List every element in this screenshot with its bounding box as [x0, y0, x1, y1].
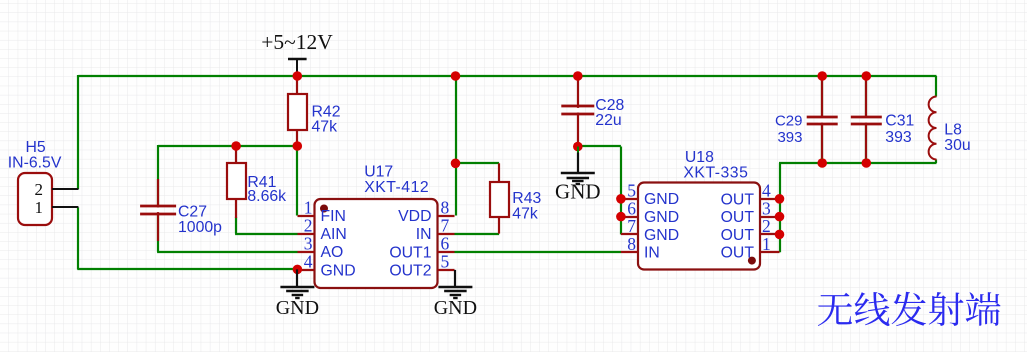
svg-text:1000p: 1000p — [178, 219, 222, 236]
svg-text:47k: 47k — [312, 119, 338, 136]
svg-text:OUT: OUT — [721, 227, 755, 244]
svg-text:XKT-412: XKT-412 — [364, 179, 429, 196]
svg-text:+5~12V: +5~12V — [261, 30, 333, 54]
svg-text:7: 7 — [441, 215, 450, 235]
svg-text:1: 1 — [304, 197, 313, 217]
svg-text:2: 2 — [35, 180, 44, 199]
svg-text:393: 393 — [885, 129, 912, 146]
svg-text:GND: GND — [321, 262, 356, 279]
svg-text:GND: GND — [644, 209, 679, 226]
svg-text:47k: 47k — [512, 205, 538, 222]
svg-text:OUT1: OUT1 — [389, 244, 431, 261]
svg-text:AIN: AIN — [321, 226, 347, 243]
svg-text:OUT: OUT — [721, 191, 755, 208]
svg-text:XKT-335: XKT-335 — [683, 165, 748, 182]
svg-text:OUT: OUT — [721, 245, 755, 262]
svg-text:5: 5 — [441, 252, 450, 272]
svg-text:OUT: OUT — [721, 209, 755, 226]
svg-text:GND: GND — [276, 297, 319, 319]
svg-text:1: 1 — [762, 234, 771, 254]
svg-text:FIN: FIN — [321, 208, 346, 225]
svg-text:GND: GND — [434, 297, 477, 319]
svg-text:1: 1 — [35, 198, 44, 217]
svg-text:IN-6.5V: IN-6.5V — [8, 154, 62, 171]
svg-text:8: 8 — [627, 234, 636, 254]
svg-text:8: 8 — [441, 197, 450, 217]
svg-text:22u: 22u — [595, 112, 621, 129]
svg-text:30u: 30u — [944, 137, 970, 154]
svg-text:6: 6 — [441, 234, 450, 254]
svg-text:3: 3 — [304, 234, 313, 254]
svg-text:4: 4 — [304, 252, 313, 272]
svg-text:C29: C29 — [775, 113, 803, 130]
svg-text:IN: IN — [416, 226, 432, 243]
svg-text:2: 2 — [304, 215, 313, 235]
svg-text:393: 393 — [777, 129, 802, 146]
svg-text:GND: GND — [644, 191, 679, 208]
svg-text:GND: GND — [644, 227, 679, 244]
svg-text:C31: C31 — [885, 113, 914, 130]
svg-text:8.66k: 8.66k — [247, 188, 286, 205]
svg-text:OUT2: OUT2 — [389, 262, 431, 279]
svg-text:IN: IN — [644, 245, 660, 262]
svg-text:GND: GND — [555, 180, 601, 204]
svg-text:AO: AO — [321, 244, 344, 261]
svg-text:VDD: VDD — [398, 208, 431, 225]
